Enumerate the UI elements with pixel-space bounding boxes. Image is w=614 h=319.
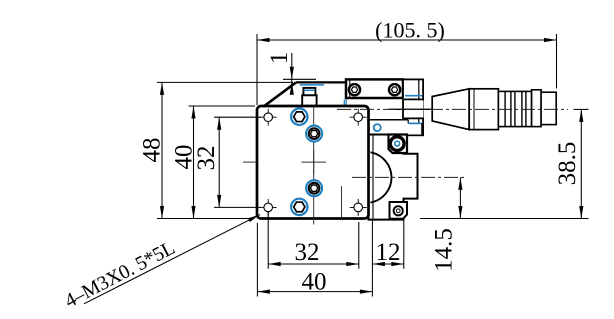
socket screw lower <box>306 180 322 196</box>
motor mount bracket <box>369 135 418 220</box>
leader 4-M3X0.5*5L <box>61 213 261 313</box>
dim 32 bottom <box>268 212 359 269</box>
svg-text:48: 48 <box>139 138 166 163</box>
connector cap <box>541 92 556 124</box>
cyan ring on carriage <box>374 124 381 131</box>
plate horizontal centerline stub <box>243 161 257 163</box>
bore axis centerline <box>352 176 466 178</box>
hex bolt top <box>291 109 307 125</box>
motor axis centerline <box>337 108 589 110</box>
plate vertical centerline <box>313 107 315 225</box>
bracket bore arc <box>371 152 392 202</box>
top rail <box>346 79 403 98</box>
connector ring <box>532 90 542 127</box>
svg-text:12: 12 <box>376 239 401 266</box>
rail screw left <box>349 84 360 95</box>
bracket bottom boss <box>390 202 408 219</box>
svg-text:14.5: 14.5 <box>431 228 458 272</box>
top block right edge <box>345 82 347 98</box>
shaft axis solid line <box>389 108 433 110</box>
dim 40 left <box>171 106 256 219</box>
corner hole bottom-right <box>350 199 367 216</box>
svg-text:32: 32 <box>193 146 220 171</box>
connector barrel <box>469 89 498 130</box>
adjustment knob <box>302 88 316 106</box>
dim 48 <box>139 82 294 218</box>
bracket top boss <box>389 135 408 154</box>
svg-text:40: 40 <box>302 268 327 295</box>
svg-text:(105. 5): (105. 5) <box>375 18 445 43</box>
carriage block <box>369 120 422 135</box>
connector taper <box>432 89 469 130</box>
hex bolt bottom <box>291 199 307 215</box>
cyan verticals at block edge <box>344 100 346 106</box>
motor rear housing <box>403 79 423 135</box>
svg-text:32: 32 <box>295 239 320 266</box>
svg-text:1: 1 <box>266 52 293 65</box>
hidden edge line <box>341 186 343 218</box>
dim 32 left <box>193 117 261 207</box>
connector ribs <box>498 91 531 126</box>
cable boot <box>404 99 424 118</box>
rail screw right <box>389 84 400 95</box>
corner hole top-left <box>260 109 277 126</box>
dim 12 <box>372 219 403 297</box>
dim (105.5) <box>257 18 557 106</box>
base plate <box>257 106 369 219</box>
center mark <box>302 150 327 175</box>
socket screw upper <box>306 126 322 142</box>
cyan edge on top block <box>300 84 324 86</box>
svg-text:38.5: 38.5 <box>554 142 581 186</box>
dim 38.5 <box>420 109 589 218</box>
dim 40 bottom <box>257 223 372 297</box>
dim 1 <box>266 52 316 95</box>
corner hole bottom-left <box>260 199 277 216</box>
corner hole top-right <box>350 109 367 126</box>
moving table chamfer edge <box>265 82 347 105</box>
dim 14.5 <box>431 177 463 271</box>
cyan clip upper <box>405 95 423 97</box>
